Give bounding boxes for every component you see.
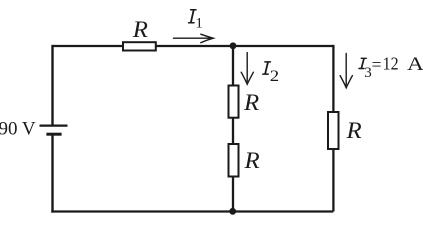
node B (bottom junction)	[229, 208, 236, 215]
wire: left vertical lower (battery - to bottom-left corner)	[51, 135, 53, 212]
resistor R3 (middle branch, lower)	[229, 144, 239, 177]
svg-text:=: =	[372, 55, 382, 75]
battery B1 short plate (negative)	[46, 133, 61, 136]
wire: bottom horizontal return	[51, 210, 333, 212]
current arrow I1	[174, 34, 214, 43]
current label I1	[189, 10, 203, 32]
svg-text:3: 3	[364, 65, 372, 81]
svg-text:R: R	[243, 90, 259, 115]
svg-text:R: R	[132, 17, 148, 42]
node A (top junction)	[230, 42, 237, 49]
wire: left vertical upper (battery + to top-left corner)	[51, 45, 53, 125]
resistor R1 (top horizontal)	[123, 42, 156, 50]
battery B1 long plate (positive)	[40, 124, 68, 126]
resistor R2 (middle branch, upper)	[229, 86, 239, 118]
svg-text:12: 12	[383, 54, 399, 74]
current arrow I2	[241, 53, 253, 85]
current arrow I3	[340, 54, 352, 88]
current label I2	[263, 62, 279, 85]
wire: top horizontal from battery to right branch	[53, 45, 334, 47]
svg-text:2: 2	[270, 68, 279, 85]
wire: middle branch vertical	[232, 46, 234, 212]
svg-text:R: R	[243, 148, 259, 173]
current label I3 = 12 A	[359, 54, 423, 81]
wire: right branch vertical	[332, 45, 334, 212]
svg-text:90 V: 90 V	[0, 118, 36, 139]
svg-text:A: A	[407, 54, 423, 75]
svg-text:1: 1	[195, 16, 203, 32]
svg-text:R: R	[345, 118, 361, 143]
resistor R4 (right branch)	[328, 112, 339, 149]
